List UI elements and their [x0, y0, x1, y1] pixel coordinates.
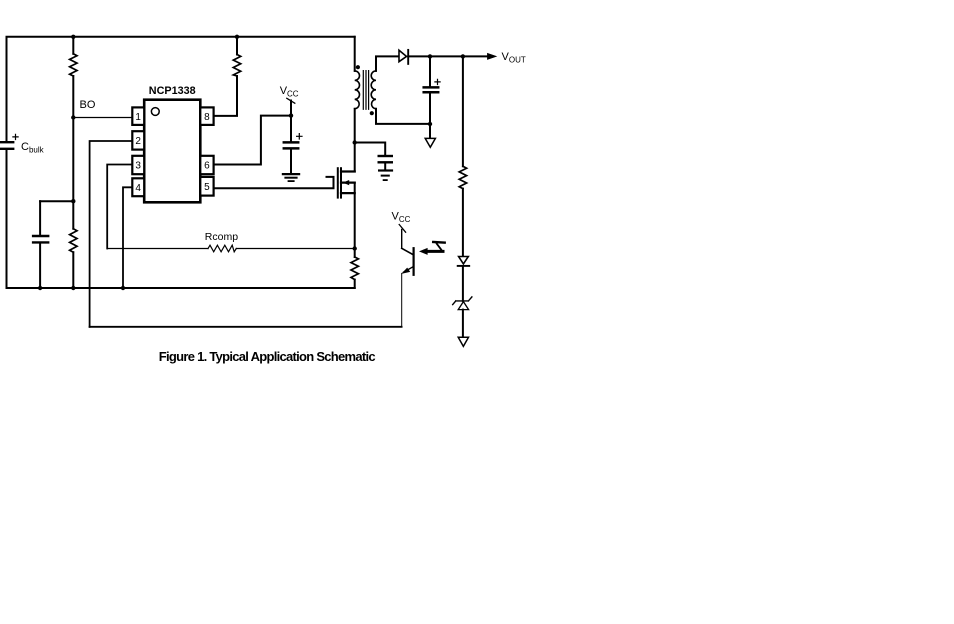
svg-text:4: 4 — [135, 183, 141, 194]
svg-text:Rcomp: Rcomp — [205, 231, 238, 243]
svg-text:BO: BO — [80, 99, 96, 111]
svg-text:8: 8 — [204, 112, 210, 123]
svg-text:Cbulk: Cbulk — [21, 141, 45, 155]
svg-text:VCC: VCC — [280, 85, 299, 99]
svg-text:VOUT: VOUT — [502, 51, 526, 65]
svg-text:NCP1338: NCP1338 — [149, 85, 196, 97]
svg-text:3: 3 — [135, 161, 141, 172]
svg-text:6: 6 — [204, 161, 210, 172]
svg-text:2: 2 — [135, 136, 141, 147]
svg-text:VCC: VCC — [392, 211, 411, 225]
svg-text:Figure 1. Typical Application: Figure 1. Typical Application Schematic — [159, 349, 376, 364]
svg-text:5: 5 — [204, 182, 210, 193]
svg-text:1: 1 — [135, 112, 141, 123]
